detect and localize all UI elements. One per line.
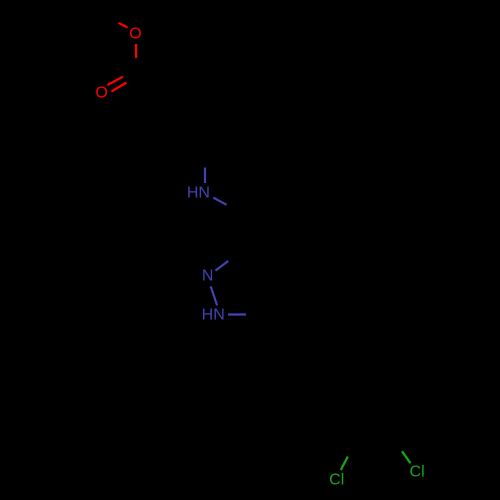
bond C=O double, upper line bbox=[107, 77, 123, 85]
svg-text:O: O bbox=[95, 84, 107, 101]
svg-text:N: N bbox=[202, 268, 214, 285]
bond C-Cl left (green half) bbox=[341, 457, 348, 471]
bond N2=C3 pyrazole (blue half) bbox=[215, 261, 228, 271]
bond C-Cl right (green half) bbox=[402, 451, 411, 463]
bond N-CH2 amine (blue half, diagonal) bbox=[213, 198, 226, 205]
bond CH3-O ester (red half) bbox=[118, 23, 127, 28]
wire skeleton: methyl C to chain (invisible carbon bonds) bbox=[101, 12, 422, 457]
bond O-C carbonyl (red half, vertical) bbox=[135, 44, 137, 58]
bond N2-N1 pyrazole (blue full) bbox=[211, 286, 217, 305]
svg-text:HN: HN bbox=[202, 307, 225, 324]
svg-text:HN: HN bbox=[187, 185, 210, 202]
svg-text:Cl: Cl bbox=[410, 464, 425, 481]
bond N1-C5 pyrazole (blue half, horizontal) bbox=[228, 313, 246, 315]
svg-text:Cl: Cl bbox=[329, 472, 344, 489]
bond C-N amine (blue half, vertical) bbox=[204, 168, 206, 184]
bond C=O double, lower line bbox=[111, 83, 126, 92]
svg-text:O: O bbox=[129, 26, 141, 43]
